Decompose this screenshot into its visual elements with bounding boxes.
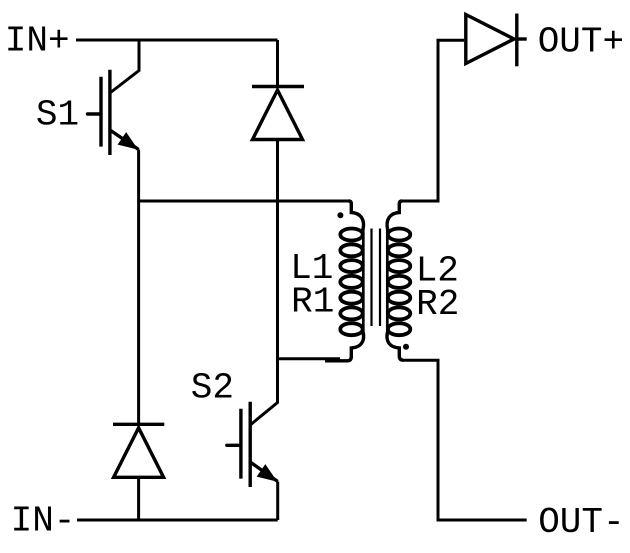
svg-text:R1: R1 bbox=[291, 282, 334, 323]
transformer secondary winding L2/R2 bbox=[387, 201, 410, 360]
svg-text:IN+: IN+ bbox=[5, 21, 70, 62]
wire S2 collector from node B bbox=[250, 357, 277, 425]
wire secondary top to D3 bbox=[402, 40, 464, 201]
svg-text:S2: S2 bbox=[191, 368, 234, 409]
transformer core bbox=[372, 229, 381, 327]
wire top rail to diode D1 bbox=[276, 40, 279, 87]
diode D2 (demagnetization, bottom) bbox=[113, 424, 164, 477]
svg-text:OUT-: OUT- bbox=[538, 502, 624, 543]
wire D1 anode down to node B bbox=[276, 140, 279, 359]
wire IN+ top rail bbox=[76, 39, 278, 42]
wire mid rail (S1 emitter to primary top) bbox=[139, 200, 349, 203]
svg-text:S1: S1 bbox=[36, 95, 79, 136]
wire secondary bottom to OUT- bbox=[402, 360, 527, 520]
transformer primary winding L1/R1 bbox=[325, 201, 364, 361]
transistor S1 bbox=[88, 70, 139, 155]
wire S1 node down to diode D2 bbox=[137, 201, 140, 424]
svg-text:R2: R2 bbox=[416, 284, 459, 325]
wire S1 emitter down bbox=[137, 150, 140, 202]
svg-text:OUT+: OUT+ bbox=[538, 21, 624, 62]
diode D3 (output rectifier) bbox=[466, 14, 527, 67]
transistor S2 bbox=[227, 402, 278, 487]
primary phasing dot bbox=[337, 212, 343, 218]
wire primary bottom (node B to winding) bbox=[278, 357, 340, 360]
wire IN- bottom rail bbox=[77, 519, 278, 522]
wire D2 anode to IN- rail bbox=[137, 477, 140, 520]
wire S2 emitter to IN- rail bbox=[276, 482, 279, 521]
svg-text:IN-: IN- bbox=[11, 501, 76, 542]
diode D1 (demagnetization, top) bbox=[252, 87, 304, 140]
wire S1 collector tap bbox=[110, 40, 139, 93]
secondary phasing dot bbox=[403, 344, 409, 350]
